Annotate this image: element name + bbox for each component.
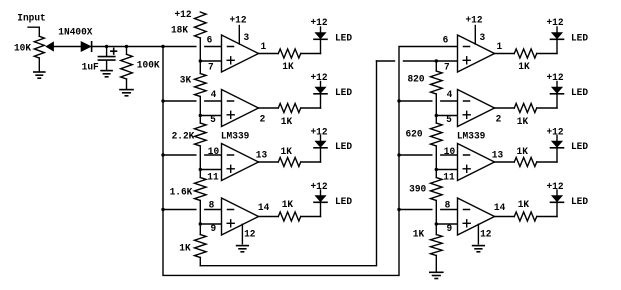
svg-text:2: 2 — [260, 115, 266, 126]
svg-text:18K: 18K — [171, 25, 188, 36]
svg-text:1K: 1K — [517, 147, 528, 158]
svg-text:6: 6 — [443, 35, 449, 46]
svg-text:820: 820 — [407, 74, 424, 85]
svg-text:+12: +12 — [310, 73, 327, 84]
svg-text:LED: LED — [571, 33, 588, 44]
svg-text:1: 1 — [497, 42, 503, 53]
svg-text:1K: 1K — [413, 230, 424, 241]
svg-text:LED: LED — [571, 142, 588, 153]
svg-text:1: 1 — [261, 42, 267, 53]
svg-text:4: 4 — [211, 90, 217, 101]
svg-text:7: 7 — [444, 63, 450, 74]
svg-text:LED: LED — [335, 88, 352, 99]
svg-text:1K: 1K — [518, 200, 529, 211]
svg-text:14: 14 — [494, 203, 505, 214]
svg-text:10: 10 — [444, 147, 455, 158]
svg-text:7: 7 — [208, 63, 214, 74]
svg-text:+12: +12 — [310, 18, 327, 29]
svg-text:11: 11 — [443, 172, 454, 183]
svg-text:9: 9 — [447, 224, 453, 235]
svg-text:+12: +12 — [546, 73, 563, 84]
svg-text:+12: +12 — [310, 127, 327, 138]
svg-text:10: 10 — [208, 147, 219, 158]
svg-text:LED: LED — [335, 142, 352, 153]
svg-text:620: 620 — [405, 129, 422, 140]
svg-text:3K: 3K — [180, 75, 191, 86]
svg-text:LED: LED — [335, 197, 352, 208]
svg-text:9: 9 — [211, 224, 217, 235]
svg-text:2.2K: 2.2K — [172, 131, 195, 142]
svg-text:LED: LED — [335, 33, 352, 44]
svg-text:5: 5 — [446, 115, 452, 126]
svg-text:+12: +12 — [546, 18, 563, 29]
svg-text:+12: +12 — [174, 10, 191, 21]
svg-text:LED: LED — [571, 197, 588, 208]
svg-text:LED: LED — [571, 88, 588, 99]
svg-text:LM339: LM339 — [221, 132, 250, 143]
svg-text:Input: Input — [17, 14, 46, 25]
svg-text:4: 4 — [447, 90, 453, 101]
svg-text:2: 2 — [496, 115, 502, 126]
svg-text:1K: 1K — [281, 117, 292, 128]
svg-text:LM339: LM339 — [457, 132, 486, 143]
svg-text:13: 13 — [492, 151, 503, 162]
svg-text:1K: 1K — [518, 62, 529, 73]
svg-text:1K: 1K — [179, 244, 190, 255]
svg-text:1.6K: 1.6K — [170, 187, 193, 198]
svg-text:+12: +12 — [546, 182, 563, 193]
svg-text:+12: +12 — [229, 15, 246, 26]
svg-text:12: 12 — [244, 230, 255, 241]
svg-text:6: 6 — [207, 35, 213, 46]
svg-text:+12: +12 — [465, 15, 482, 26]
svg-text:12: 12 — [480, 230, 491, 241]
svg-text:10K: 10K — [14, 43, 31, 54]
svg-text:5: 5 — [210, 115, 216, 126]
svg-text:11: 11 — [207, 172, 218, 183]
svg-text:1K: 1K — [281, 147, 292, 158]
svg-text:390: 390 — [409, 184, 426, 195]
svg-text:1uF: 1uF — [82, 63, 99, 74]
svg-text:100K: 100K — [137, 60, 160, 71]
svg-text:8: 8 — [209, 200, 215, 211]
svg-text:1K: 1K — [282, 62, 293, 73]
svg-text:3: 3 — [480, 33, 486, 44]
svg-text:+12: +12 — [310, 182, 327, 193]
svg-text:14: 14 — [258, 203, 269, 214]
svg-text:1K: 1K — [282, 200, 293, 211]
svg-text:1K: 1K — [517, 117, 528, 128]
svg-text:13: 13 — [256, 151, 267, 162]
svg-text:1N400X: 1N400X — [58, 28, 92, 39]
svg-text:+12: +12 — [546, 127, 563, 138]
svg-text:3: 3 — [244, 33, 250, 44]
svg-text:8: 8 — [445, 200, 451, 211]
